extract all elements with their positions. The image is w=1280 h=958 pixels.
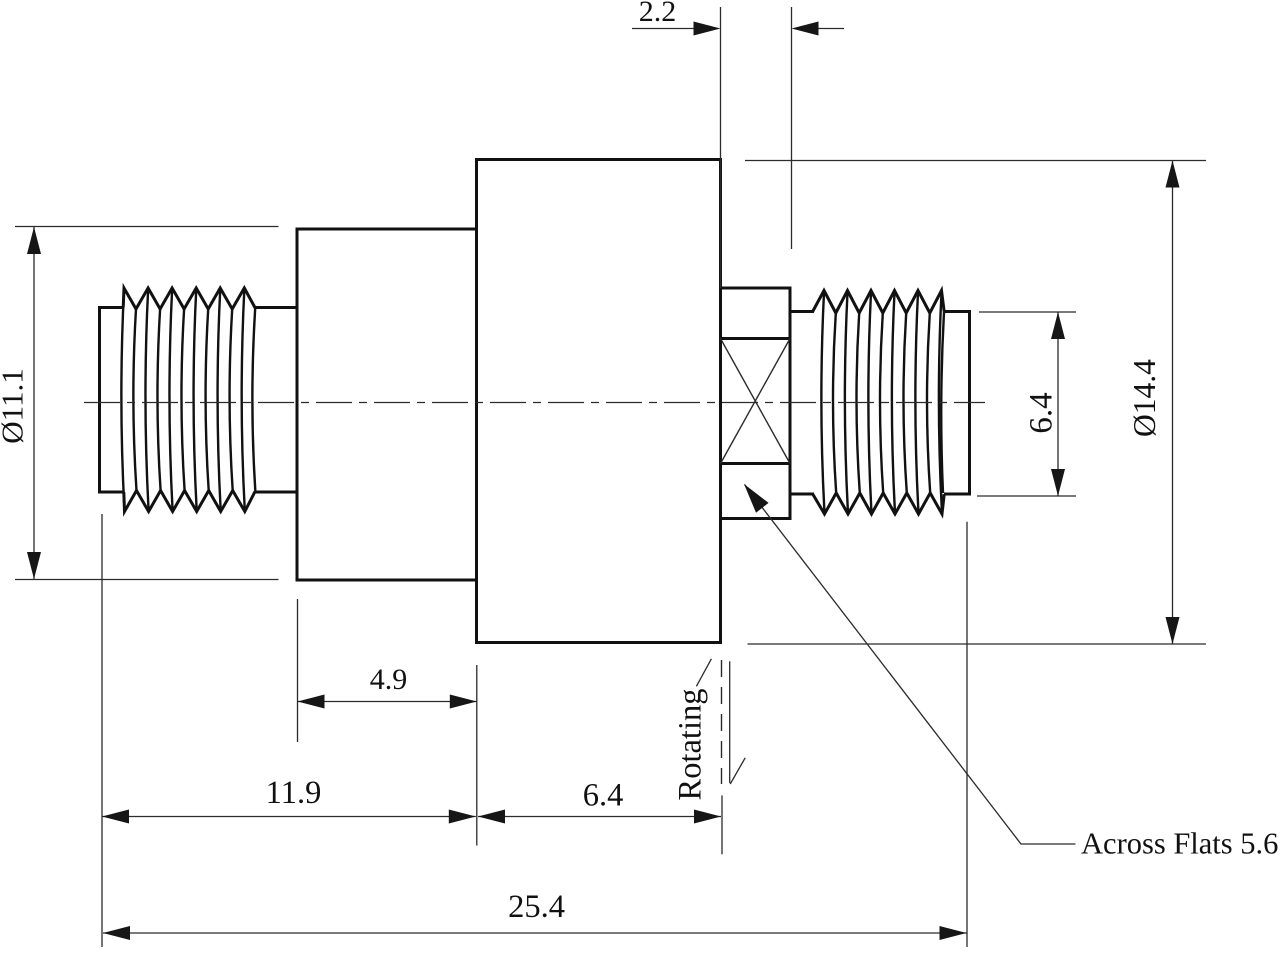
middle step block <box>297 229 477 580</box>
svg-text:Across Flats 5.6: Across Flats 5.6 <box>1081 827 1278 861</box>
left thread top zigzag <box>123 288 255 309</box>
dimension 2.2 lines and arrows <box>632 28 695 30</box>
hex nut inner lines <box>721 337 791 340</box>
dimension 6.4 right line and arrows <box>1057 312 1059 496</box>
dimension D14.4 extension lines <box>745 160 1206 162</box>
rotating top tick <box>696 659 711 687</box>
dimension 6.4 bottom line and arrows <box>478 816 721 818</box>
dimension D11.1 extension lines <box>15 226 279 228</box>
svg-text:25.4: 25.4 <box>508 889 565 925</box>
dimension 4.9 extension lines <box>297 599 299 742</box>
hex nut X cross <box>721 339 791 464</box>
left thread helix lines <box>121 290 124 511</box>
across flats leader line <box>745 485 1076 845</box>
dimension 25.4 extension line <box>966 522 968 947</box>
svg-text:Ø11.1: Ø11.1 <box>0 368 30 444</box>
dimension 6.4 bottom extension line <box>721 795 723 854</box>
dimension 25.4 line and arrows <box>103 932 967 934</box>
svg-text:Ø14.4: Ø14.4 <box>1127 359 1162 437</box>
svg-text:11.9: 11.9 <box>266 775 322 811</box>
right shank <box>790 310 814 313</box>
rotating dashed line <box>721 660 723 784</box>
svg-text:2.2: 2.2 <box>639 0 677 28</box>
across flats leader arrow <box>744 484 769 513</box>
rotating bottom tick <box>730 758 745 784</box>
left end cap <box>100 308 124 493</box>
svg-text:6.4: 6.4 <box>1024 392 1060 433</box>
left thread bottom zigzag <box>124 491 256 512</box>
right end cap <box>944 312 970 495</box>
dimension D14.4 line and arrows <box>1172 161 1174 645</box>
svg-text:Rotating: Rotating <box>673 689 709 801</box>
dimension 4.9 line and arrows <box>298 701 477 703</box>
dimension 6.4 right extension lines <box>979 311 1076 313</box>
right thread bottom zigzag <box>813 493 945 514</box>
hex nut outer rect <box>721 288 791 519</box>
right thread helix lines <box>821 293 824 514</box>
left thread smooth shank <box>255 306 297 309</box>
svg-text:4.9: 4.9 <box>370 663 408 696</box>
dimension D11.1 line and arrows <box>33 227 35 579</box>
svg-text:6.4: 6.4 <box>583 778 624 814</box>
dimension 2.2 extension lines <box>720 7 722 288</box>
dimension 11.9 line and arrows <box>102 816 476 818</box>
dimension 11.9 extension line <box>101 514 103 947</box>
centerline <box>84 402 985 404</box>
right thread top zigzag <box>813 291 945 314</box>
large body block <box>477 160 721 643</box>
rotating solid line <box>729 661 731 783</box>
